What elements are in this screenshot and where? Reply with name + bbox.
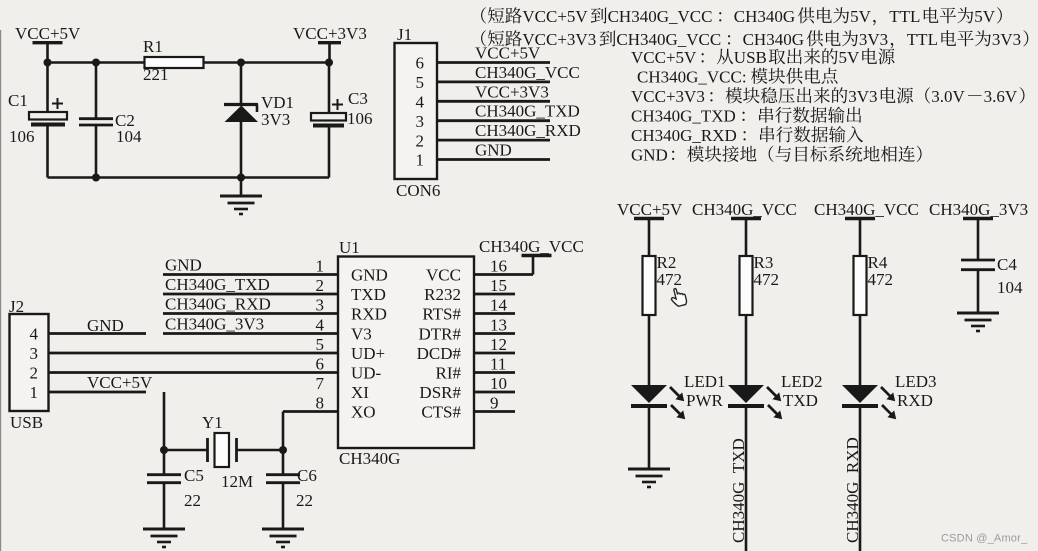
pin label DTR# (U1 right) — [419, 324, 462, 343]
net label VCC+5V (J1) — [475, 44, 541, 63]
svg-text:RXD: RXD — [351, 304, 387, 323]
resistor R4 — [854, 256, 867, 315]
net label GND (U1) — [165, 255, 202, 274]
wire U1 pin 9 (right) — [474, 410, 515, 413]
pin label TXD (U1 left) — [351, 285, 386, 304]
power bar (R4 col) — [845, 217, 875, 220]
svg-text:CON6: CON6 — [396, 181, 440, 200]
capacitor C1 bottom plate — [31, 123, 65, 127]
zener diode VD1 wire top — [240, 63, 243, 105]
wire bottom rail — [48, 176, 330, 179]
wire R to LED (R3) — [745, 315, 748, 385]
wire J2 pin 1 VCC+5V — [49, 391, 147, 394]
wire VCC+3V3 stub — [328, 43, 331, 63]
wire U1 pin 16 (right) — [474, 273, 533, 276]
svg-text:GND: GND — [87, 316, 124, 335]
svg-text:CH340G_3V3: CH340G_3V3 — [165, 314, 264, 333]
svg-text:VCC+5V: VCC+5V — [617, 200, 683, 219]
svg-text:472: 472 — [868, 270, 894, 289]
pin number 9 (U1 right) — [490, 393, 499, 412]
svg-text:9: 9 — [490, 393, 499, 412]
pin number 4 (U1 left) — [316, 315, 325, 334]
svg-text:VCC: VCC — [426, 265, 461, 284]
svg-text:VCC+5V: VCC+5V — [631, 48, 697, 67]
wire J1 pin 2 — [437, 139, 550, 142]
net label CH340G_3V3 (U1) — [165, 314, 264, 333]
svg-text:1: 1 — [416, 151, 425, 170]
svg-text:CH340G_TXD: CH340G_TXD — [729, 438, 748, 543]
net label CH340G_VCC (LED col R4) — [814, 200, 919, 219]
label C4 — [997, 255, 1017, 274]
svg-text:CH340G: CH340G — [339, 449, 400, 468]
svg-text:5: 5 — [316, 335, 325, 354]
net label CH340G_VCC (LED col R3) — [692, 200, 797, 219]
capacitor C3 top plate — [311, 113, 346, 121]
svg-text:UD+: UD+ — [351, 344, 385, 363]
svg-text:11: 11 — [490, 354, 506, 373]
node dot A3 — [237, 59, 245, 67]
svg-text:3V3: 3V3 — [261, 110, 290, 129]
pin label CTS# (U1 right) — [421, 402, 461, 421]
node dot XO — [279, 446, 287, 454]
svg-text:Y1: Y1 — [202, 413, 223, 432]
wire J1 pin 6 — [437, 61, 550, 64]
svg-text:USB: USB — [10, 413, 43, 432]
value 472 (R3) — [754, 270, 780, 289]
svg-text:5V: 5V — [850, 7, 872, 26]
wire U1 pin 12 (right) — [474, 352, 515, 355]
svg-text:3: 3 — [416, 112, 425, 131]
zener diode VD1 wire bottom — [240, 122, 243, 178]
label C1 — [8, 91, 28, 110]
wire J2 pin 4 GND — [49, 332, 147, 335]
svg-text:CSDN @_Amor_: CSDN @_Amor_ — [941, 533, 1028, 545]
pin label GND (U1 left) — [351, 265, 388, 284]
label USB — [10, 413, 43, 432]
node dot A4 — [325, 59, 333, 67]
svg-text:PWR: PWR — [686, 391, 724, 410]
svg-text:16: 16 — [490, 256, 507, 275]
label R3 — [754, 253, 774, 272]
node dot B1 — [92, 174, 100, 182]
wire R to LED (R4) — [859, 315, 862, 385]
pin label UD- (U1 left) — [351, 363, 382, 382]
svg-text:10: 10 — [490, 374, 507, 393]
capacitor C3 bottom plate — [313, 124, 344, 128]
svg-text:1: 1 — [316, 256, 325, 275]
svg-text:DTR#: DTR# — [419, 324, 462, 343]
wire U1 pin 14 (right) — [474, 312, 515, 315]
label TXD (LED) — [783, 391, 818, 410]
net label VCC+3V3 (J1) — [475, 82, 549, 101]
pin 6 of J1 — [416, 54, 425, 73]
label LED1 — [684, 372, 726, 391]
pin 3 of J2 — [30, 344, 39, 363]
wire crystal left — [164, 449, 207, 452]
annotation line 7 — [631, 126, 863, 145]
svg-text:3V3: 3V3 — [848, 87, 877, 106]
svg-text:XO: XO — [351, 402, 376, 421]
wire LED1 to ground — [648, 406, 651, 468]
svg-text:2: 2 — [416, 131, 425, 150]
label R2 — [657, 253, 677, 272]
svg-text:CH340G_RXD: CH340G_RXD — [165, 294, 271, 313]
svg-text:472: 472 — [754, 270, 780, 289]
pin number 5 (U1 left) — [316, 335, 325, 354]
svg-text:7: 7 — [316, 374, 325, 393]
label U1 — [339, 238, 360, 257]
svg-text:CH340G_VCC: CH340G_VCC — [475, 63, 580, 82]
annotation line 5 — [631, 87, 1025, 106]
svg-text:VCC+5V: VCC+5V — [87, 373, 153, 392]
svg-text:LED1: LED1 — [684, 372, 726, 391]
LED LED2 emission arrows — [767, 387, 782, 419]
svg-text:C3: C3 — [348, 89, 368, 108]
pin 2 of J1 — [416, 131, 425, 150]
wire U1 pin 1 — [163, 273, 338, 276]
svg-text:CH340G_RXD: CH340G_RXD — [631, 126, 737, 145]
svg-text:3: 3 — [30, 344, 39, 363]
wire crystal right — [237, 449, 284, 452]
svg-text:C4: C4 — [997, 255, 1017, 274]
mouse hand cursor — [669, 287, 687, 308]
svg-text:15: 15 — [490, 276, 507, 295]
annotation line 2 — [481, 30, 1028, 49]
capacitor C2 wire top — [95, 63, 98, 118]
pin label RI# (U1 right) — [436, 363, 462, 382]
ground (power section) — [220, 196, 262, 214]
wire top rail left — [48, 61, 146, 64]
pin number 13 (U1 right) — [490, 315, 507, 334]
svg-text:XI: XI — [351, 383, 369, 402]
wire U1 pin 10 (right) — [474, 391, 515, 394]
svg-text:106: 106 — [347, 109, 373, 128]
LED LED2 triangle — [728, 385, 764, 403]
node dot A2 — [92, 59, 100, 67]
wire XI branch — [163, 392, 166, 450]
svg-text:GND: GND — [631, 146, 668, 165]
svg-text:R1: R1 — [143, 37, 163, 56]
svg-text:6: 6 — [316, 354, 325, 373]
svg-text:CH340G_TXD: CH340G_TXD — [165, 275, 270, 294]
pin 4 of J1 — [416, 93, 425, 112]
wire J1 pin 4 — [437, 100, 550, 103]
wire VCC to CH340G_VCC — [532, 255, 535, 275]
svg-text:3V3: 3V3 — [992, 30, 1021, 49]
svg-text:TXD: TXD — [351, 285, 386, 304]
svg-text:106: 106 — [9, 127, 35, 146]
value 3V3 (VD1) — [261, 110, 290, 129]
net label CH340G_RXD (vertical) — [843, 437, 862, 543]
label C3 — [348, 89, 368, 108]
svg-text:22: 22 — [296, 491, 313, 510]
pin number 1 (U1 left) — [316, 256, 325, 275]
net label CH340G_TXD (U1) — [165, 275, 270, 294]
capacitor C3 wire top — [328, 63, 331, 114]
svg-text:2: 2 — [316, 276, 325, 295]
pin label R232 (U1 right) — [424, 285, 461, 304]
resistor R3 — [740, 256, 753, 315]
svg-text:5V: 5V — [974, 7, 996, 26]
label Y1 — [202, 413, 223, 432]
svg-text:GND: GND — [475, 141, 512, 160]
svg-text:VCC+5V: VCC+5V — [522, 7, 588, 26]
pin 2 of J2 — [30, 364, 39, 383]
svg-text:LED2: LED2 — [781, 372, 823, 391]
resistor R2 — [643, 256, 656, 315]
svg-text:CH340G: CH340G — [743, 30, 804, 49]
ground (C6) — [262, 529, 304, 547]
svg-text:VCC+3V3: VCC+3V3 — [475, 82, 549, 101]
annotation line 3 — [631, 48, 895, 67]
svg-text:DCD#: DCD# — [417, 344, 462, 363]
annotation line 1 — [481, 7, 1002, 26]
net label CH340G_RXD (J1) — [475, 121, 581, 140]
label C5 — [184, 466, 204, 485]
svg-text:VCC+3V3: VCC+3V3 — [522, 30, 596, 49]
annotation line 4 — [637, 68, 838, 87]
wire J1 pin 1 — [437, 158, 550, 161]
wire U1 pin 4 — [163, 332, 338, 335]
pin 3 of J1 — [416, 112, 425, 131]
value 22 (C6) — [296, 491, 313, 510]
svg-text:CH340G_TXD: CH340G_TXD — [631, 107, 736, 126]
pin number 12 (U1 right) — [490, 335, 507, 354]
svg-text:RTS#: RTS# — [422, 304, 461, 323]
value 12M (Y1) — [221, 472, 253, 491]
pin number 7 (U1 left) — [316, 374, 325, 393]
svg-text:CH340G_VCC: CH340G_VCC — [616, 30, 721, 49]
svg-text:104: 104 — [997, 278, 1023, 297]
LED LED3 triangle — [842, 385, 878, 403]
wire J2 pin 3 to U1 UD+ — [49, 352, 339, 355]
svg-text:4: 4 — [30, 325, 39, 344]
wire U1 pin 11 (right) — [474, 371, 515, 374]
wire top rail right — [204, 61, 330, 64]
pin number 6 (U1 left) — [316, 354, 325, 373]
power bar (R2 col) — [634, 217, 664, 220]
net label CH340G_RXD (U1) — [165, 294, 271, 313]
LED LED3 cathode bar — [842, 404, 878, 408]
svg-text:5: 5 — [416, 73, 425, 92]
svg-text:J1: J1 — [397, 25, 412, 44]
svg-text:TTL: TTL — [907, 30, 938, 49]
label PWR (LED) — [686, 391, 724, 410]
value 472 (R2) — [657, 270, 683, 289]
capacitor C2 wire bottom — [95, 126, 98, 178]
svg-text:221: 221 — [143, 65, 169, 84]
pin label V3 (U1 left) — [351, 324, 372, 343]
svg-text:C5: C5 — [184, 466, 204, 485]
capacitor C3 plus sign — [332, 99, 343, 110]
connector J2 body — [10, 314, 49, 411]
svg-text:LED3: LED3 — [895, 372, 937, 391]
watermark CSDN @_Amor_ — [941, 533, 1028, 545]
connector J1 body — [395, 43, 438, 179]
svg-text:4: 4 — [416, 93, 425, 112]
net label CH340G_TXD (J1) — [475, 102, 580, 121]
pin number 14 (U1 right) — [490, 295, 508, 314]
label VD1 — [261, 93, 294, 112]
svg-text:RI#: RI# — [436, 363, 462, 382]
pin label RTS# (U1 right) — [422, 304, 461, 323]
capacitor C1 top plate — [29, 112, 67, 120]
ground (C4) — [957, 313, 999, 331]
LED LED1 cathode bar — [631, 404, 667, 408]
net label VCC+5V (LED col R2) — [617, 200, 683, 219]
pin number 3 (U1 left) — [316, 295, 325, 314]
label R1 — [143, 37, 163, 56]
svg-text:13: 13 — [490, 315, 507, 334]
pin number 15 (U1 right) — [490, 276, 507, 295]
svg-text:12: 12 — [490, 335, 507, 354]
ground (LED1) — [628, 469, 670, 487]
svg-text:8: 8 — [316, 393, 325, 412]
label LED3 — [895, 372, 937, 391]
svg-text:C6: C6 — [297, 466, 317, 485]
node dot XI — [160, 446, 168, 454]
svg-text:3V3: 3V3 — [859, 30, 888, 49]
svg-text:CH340G_VCC: CH340G_VCC — [608, 7, 713, 26]
capacitor C4 wire bottom — [977, 271, 980, 313]
LED LED1 triangle — [631, 385, 667, 403]
capacitor C5 plates — [147, 475, 181, 483]
IC U1 body — [338, 257, 474, 449]
wire ground stub — [240, 178, 243, 196]
capacitor C1 plus sign — [52, 98, 63, 109]
pin 1 of J1 — [416, 151, 425, 170]
svg-text:CH340G_VCC: CH340G_VCC — [692, 200, 797, 219]
pin label VCC (U1 right) — [426, 265, 461, 284]
svg-text:2: 2 — [30, 364, 39, 383]
capacitor C1 wire bottom — [46, 127, 49, 178]
pin label UD+ (U1 left) — [351, 344, 385, 363]
svg-text:3.0V: 3.0V — [931, 87, 965, 106]
svg-text:CH340G_TXD: CH340G_TXD — [475, 102, 580, 121]
svg-text:5V: 5V — [839, 48, 861, 67]
crystal Y1 — [208, 433, 237, 467]
pin 1 of J2 — [30, 383, 39, 402]
svg-text:V3: V3 — [351, 324, 372, 343]
net label CH340G_VCC (J1) — [475, 63, 580, 82]
wire J1 pin 5 — [437, 81, 550, 84]
svg-text:CH340G_VCC: CH340G_VCC — [814, 200, 919, 219]
wire R4 to R top — [859, 219, 862, 257]
net label CH340G_TXD (vertical) — [729, 438, 748, 543]
wire 3V3 to C4 — [977, 219, 980, 260]
wire R2 to R top — [648, 219, 651, 257]
wire R3 to R top — [745, 219, 748, 257]
pin label DCD# (U1 right) — [417, 344, 462, 363]
label J1 — [397, 25, 412, 44]
node dot A1 — [44, 59, 52, 67]
capacitor C1 wire top — [46, 63, 49, 113]
capacitor C5 wire bottom — [163, 484, 166, 529]
svg-text:472: 472 — [657, 270, 683, 289]
ground (C5) — [143, 529, 185, 547]
svg-text:1: 1 — [30, 383, 39, 402]
svg-text:CH340G: CH340G — [734, 7, 795, 26]
annotation line 8 — [631, 146, 922, 165]
svg-text:CH340G_VCC:: CH340G_VCC: — [637, 68, 747, 87]
power bar CH340G_VCC (U1) — [522, 254, 552, 257]
svg-text:6: 6 — [416, 54, 425, 73]
value 106 (C3) — [347, 109, 373, 128]
wire U1 pin 13 (right) — [474, 332, 515, 335]
label CON6 — [396, 181, 440, 200]
power bar VCC+3V3 — [318, 41, 341, 44]
svg-text:CTS#: CTS# — [421, 402, 461, 421]
LED LED1 emission arrows — [670, 387, 685, 419]
svg-text:GND: GND — [351, 265, 388, 284]
net label GND (J2) — [87, 316, 124, 335]
svg-text:CH340G_RXD: CH340G_RXD — [843, 437, 862, 543]
wire J1 pin 3 — [437, 119, 550, 122]
value 104 (C2) — [116, 127, 142, 146]
label C2 — [115, 111, 135, 130]
power bar (R3 col) — [731, 217, 761, 220]
wire R to LED (R2) — [648, 315, 651, 385]
wire LED3 to bottom (CH340G_RXD) — [859, 406, 862, 551]
svg-text:VCC+3V3: VCC+3V3 — [293, 24, 367, 43]
pin label XI (U1 left) — [351, 383, 369, 402]
pin number 2 (U1 left) — [316, 276, 325, 295]
svg-text:RXD: RXD — [897, 391, 933, 410]
svg-text:GND: GND — [165, 255, 202, 274]
wire U1 pin 3 — [163, 312, 338, 315]
annotation line 6 — [631, 107, 861, 126]
net label VCC+5V (top-left) — [15, 24, 81, 43]
svg-text:CH340G_VCC: CH340G_VCC — [479, 237, 584, 256]
net label CH340G_VCC (U1 top) — [479, 237, 584, 256]
svg-text:VCC+3V3: VCC+3V3 — [631, 87, 705, 106]
pin number 8 (U1 left) — [316, 393, 325, 412]
LED LED2 cathode bar — [728, 404, 764, 408]
wire U1 pin 15 (right) — [474, 293, 515, 296]
capacitor C3 wire bottom — [328, 128, 331, 178]
svg-text:CH340G_RXD: CH340G_RXD — [475, 121, 581, 140]
wire VCC+5V stub — [46, 43, 49, 63]
zener diode VD1 triangle — [225, 106, 259, 123]
net label VCC+3V3 (top) — [293, 24, 367, 43]
capacitor C6 wire bottom — [282, 484, 285, 529]
label R4 — [868, 253, 888, 272]
pin number 11 (U1 right) — [490, 354, 506, 373]
value 104 (C4) — [997, 278, 1023, 297]
value 22 (C5) — [184, 491, 201, 510]
capacitor C4 plates — [961, 260, 995, 270]
svg-text:R232: R232 — [424, 285, 461, 304]
power bar (3V3 col) — [963, 217, 993, 220]
pin 4 of J2 — [30, 325, 39, 344]
pin label XO (U1 left) — [351, 402, 376, 421]
capacitor C2 plates — [79, 119, 113, 125]
pin number 16 (U1 right) — [490, 256, 507, 275]
wire J2 pin 2 to U1 UD- — [49, 371, 339, 374]
label C6 — [297, 466, 317, 485]
label CH340G (below U1) — [339, 449, 400, 468]
wire XO branch — [282, 412, 285, 451]
value 472 (R4) — [868, 270, 894, 289]
wire LED2 to bottom (CH340G_TXD) — [745, 406, 748, 551]
net label VCC+5V (J2) — [87, 373, 153, 392]
pin label RXD (U1 left) — [351, 304, 387, 323]
svg-text:VCC+5V: VCC+5V — [15, 24, 81, 43]
svg-text:TXD: TXD — [783, 391, 818, 410]
svg-text:104: 104 — [116, 127, 142, 146]
svg-text:UD-: UD- — [351, 363, 382, 382]
label RXD (LED) — [897, 391, 933, 410]
